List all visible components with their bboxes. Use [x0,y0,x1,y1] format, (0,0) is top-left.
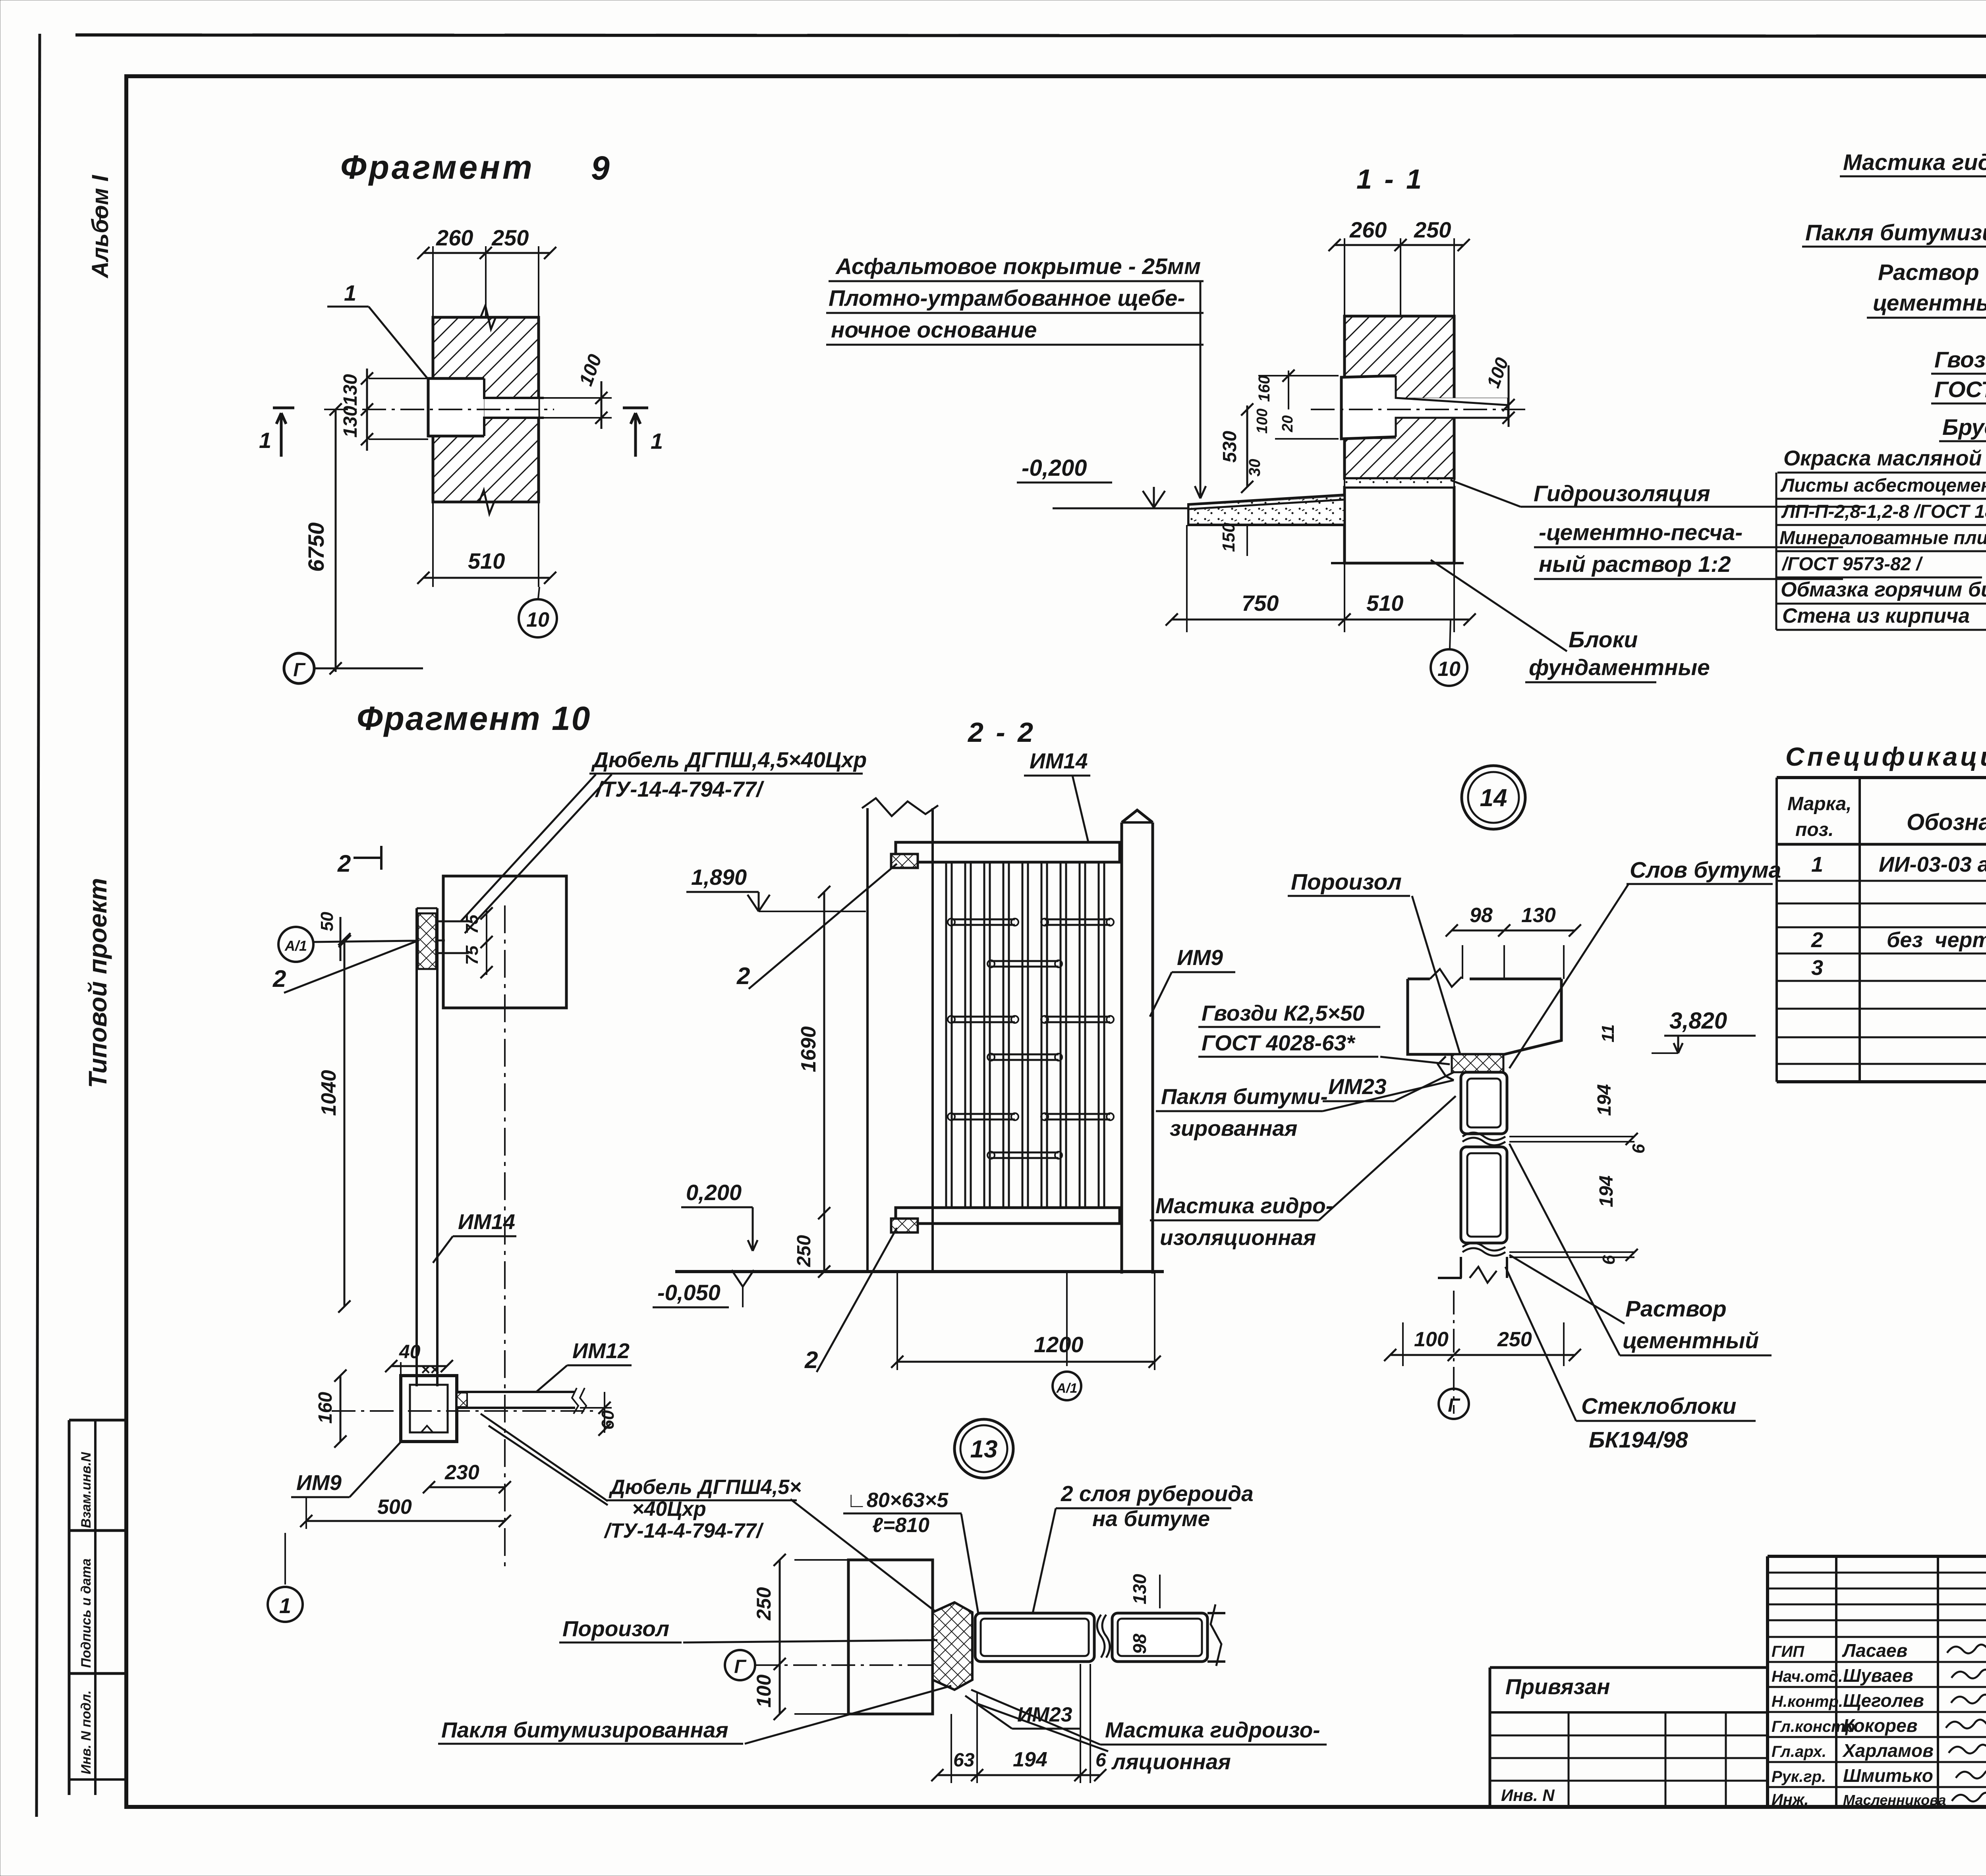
svg-text:изоляционная: изоляционная [1160,1225,1316,1250]
svg-text:Гл.констр: Гл.констр [1772,1718,1855,1735]
svg-text:Ласаев: Ласаев [1842,1640,1907,1661]
svg-text:Г: Г [734,1656,747,1677]
svg-text:Г: Г [1448,1395,1461,1416]
svg-text:13: 13 [970,1436,998,1463]
svg-text:Мастика гидро-: Мастика гидро- [1155,1193,1333,1218]
svg-text:Щеголев: Щеголев [1843,1690,1924,1711]
svg-text:Шуваев: Шуваев [1843,1665,1913,1686]
svg-text:60: 60 [598,1410,618,1430]
svg-text:поз.: поз. [1795,819,1833,840]
svg-text:50: 50 [317,912,337,931]
svg-text:2: 2 [272,965,286,992]
svg-text:250: 250 [1497,1328,1532,1351]
svg-text:Фрагмент 10: Фрагмент 10 [357,700,591,737]
svg-text:фундаментные: фундаментные [1529,655,1710,680]
svg-text:10: 10 [526,608,549,631]
svg-text:Пакля битумизированная: Пакля битумизированная [1805,220,1986,245]
svg-text:500: 500 [377,1496,412,1519]
svg-text:Раствор: Раствор [1878,260,1979,285]
svg-text:1200: 1200 [1034,1332,1084,1357]
svg-text:1040: 1040 [317,1070,340,1116]
svg-text:зированная: зированная [1170,1116,1297,1141]
svg-text:98: 98 [1470,904,1493,927]
svg-text:Пороизол: Пороизол [562,1616,669,1641]
svg-text:ИМ12: ИМ12 [572,1339,630,1363]
svg-text:без чертежа: без чертежа [1887,928,1986,952]
svg-text:Обмазка горячим битумом: Обмазка горячим битумом [1781,578,1986,601]
svg-text:×40Цхр: ×40Цхр [632,1498,706,1521]
svg-text:750: 750 [1242,591,1279,616]
svg-text:160: 160 [1256,375,1273,402]
svg-text:Стеклоблоки: Стеклоблоки [1581,1393,1736,1419]
svg-text:230: 230 [444,1461,479,1484]
svg-text:Пакля битумизированная: Пакля битумизированная [441,1718,728,1742]
svg-text:-0,050: -0,050 [657,1280,721,1305]
svg-text:20: 20 [1279,415,1296,432]
svg-text:250: 250 [1414,217,1451,242]
svg-text:9: 9 [591,149,610,187]
svg-text:194: 194 [1594,1084,1615,1116]
svg-text:130: 130 [340,406,361,438]
svg-text:Плотно-утрамбованное щебе-: Плотно-утрамбованное щебе- [829,286,1185,311]
svg-text:260: 260 [436,225,473,250]
svg-text:6: 6 [1599,1255,1619,1265]
svg-text:1: 1 [651,428,663,454]
svg-text:ИМ23: ИМ23 [1328,1074,1387,1099]
svg-text:11: 11 [1598,1024,1618,1042]
svg-text:194: 194 [1013,1748,1047,1771]
svg-text:/ТУ-14-4-794-77/: /ТУ-14-4-794-77/ [604,1519,764,1542]
svg-text:Инв. N: Инв. N [1501,1786,1555,1805]
svg-text:Инж.: Инж. [1772,1791,1809,1808]
svg-text:Н.контр.: Н.контр. [1772,1693,1843,1710]
svg-text:3: 3 [1811,956,1823,980]
svg-text:194: 194 [1596,1175,1617,1207]
svg-text:250: 250 [794,1235,815,1267]
svg-text:Привязан: Привязан [1505,1674,1610,1699]
svg-text:А/1: А/1 [1056,1381,1078,1396]
svg-text:на битуме: на битуме [1092,1506,1210,1531]
svg-text:510: 510 [1366,591,1403,616]
svg-text:ЛП-П-2,8-1,2-8 /ГОСТ 18124-75*: ЛП-П-2,8-1,2-8 /ГОСТ 18124-75*/ [1781,501,1986,522]
svg-text:Гвозди К2,5×50: Гвозди К2,5×50 [1934,347,1986,372]
svg-text:/ТУ-14-4-794-77/: /ТУ-14-4-794-77/ [595,777,765,801]
svg-text:1690: 1690 [797,1026,820,1072]
svg-text:××: ×× [421,1361,440,1378]
svg-text:1: 1 [1811,853,1823,876]
svg-text:ГИП: ГИП [1772,1643,1804,1660]
svg-text:2: 2 [736,963,750,989]
svg-text:ИМ9: ИМ9 [1177,945,1223,970]
svg-text:Раствор: Раствор [1625,1296,1727,1322]
svg-text:Асфальтовое покрытие - 25мм: Асфальтовое покрытие - 25мм [835,254,1201,279]
svg-text:1 - 1: 1 - 1 [1356,164,1424,195]
svg-text:Подпись и дата: Подпись и дата [79,1558,94,1668]
svg-text:100: 100 [753,1674,775,1708]
svg-text:Кокорев: Кокорев [1843,1715,1918,1736]
svg-text:250: 250 [753,1587,775,1621]
svg-text:Типовой проект: Типовой проект [83,878,112,1088]
svg-text:1: 1 [259,428,271,453]
svg-text:Мастика гидроизо-: Мастика гидроизо- [1105,1718,1320,1742]
svg-text:98: 98 [1129,1633,1150,1654]
svg-text:250: 250 [491,225,529,250]
svg-text:150: 150 [1219,523,1238,552]
svg-text:Альбом I: Альбом I [87,174,113,279]
svg-text:530: 530 [1219,431,1240,463]
svg-text:Харламов: Харламов [1842,1740,1934,1761]
svg-text:Стена из кирпича: Стена из кирпича [1782,604,1970,627]
svg-text:1: 1 [344,280,356,305]
svg-text:цементный: цементный [1623,1328,1759,1353]
svg-text:ный раствор 1:2: ный раствор 1:2 [1539,552,1731,577]
svg-text:ГОСТ 4028-63*: ГОСТ 4028-63* [1202,1031,1356,1055]
svg-text:Обозначение: Обозначение [1907,809,1986,835]
svg-text:Листы асбестоцементные плоские: Листы асбестоцементные плоские [1780,475,1986,496]
svg-text:2: 2 [337,850,351,877]
svg-text:Масленникова: Масленникова [1843,1792,1946,1808]
svg-text:Шмитько: Шмитько [1843,1765,1933,1786]
svg-text:160: 160 [315,1392,336,1424]
svg-text:6: 6 [1629,1144,1648,1154]
svg-text:ИМ23: ИМ23 [1017,1703,1072,1726]
svg-text:Гвозди К2,5×50: Гвозди К2,5×50 [1202,1001,1365,1025]
svg-text:Инв. N подл.: Инв. N подл. [79,1690,94,1774]
svg-text:Пакля битуми-: Пакля битуми- [1161,1084,1328,1109]
svg-text:10: 10 [1437,658,1461,681]
svg-text:Пороизол: Пороизол [1291,869,1402,895]
svg-text:ℓ=810: ℓ=810 [872,1514,929,1537]
svg-text:ИМ14: ИМ14 [458,1210,515,1234]
svg-text:Минераловатные плиты γ=150кг/м: Минераловатные плиты γ=150кг/м³ [1779,527,1986,548]
svg-text:ляционная: ляционная [1111,1749,1231,1774]
svg-text:Г: Г [293,660,306,681]
svg-text:40: 40 [399,1341,421,1363]
svg-text:0,200: 0,200 [686,1180,742,1205]
svg-text:ночное основание: ночное основание [831,317,1037,343]
svg-text:130: 130 [1521,904,1556,927]
svg-text:2 - 2: 2 - 2 [967,717,1036,748]
svg-text:75: 75 [462,946,482,965]
svg-text:14: 14 [1480,784,1507,812]
svg-text:/ГОСТ 9573-82 /: /ГОСТ 9573-82 / [1781,553,1923,574]
svg-text:Нач.отд.: Нач.отд. [1772,1668,1843,1685]
svg-text:цементный: цементный [1873,290,1986,316]
svg-text:2: 2 [804,1347,818,1373]
svg-text:100: 100 [1414,1328,1449,1351]
svg-text:-0,200: -0,200 [1022,455,1087,481]
svg-text:Дюбель ДГПШ4,5×: Дюбель ДГПШ4,5× [609,1476,802,1499]
svg-text:2 слоя рубероида: 2 слоя рубероида [1061,1481,1254,1506]
svg-text:63: 63 [953,1750,975,1771]
svg-text:Взам.инв.N: Взам.инв.N [79,1451,94,1528]
svg-text:∟80×63×5: ∟80×63×5 [846,1489,949,1512]
svg-text:130: 130 [340,374,361,406]
svg-text:75: 75 [462,915,482,934]
svg-text:Рук.гр.: Рук.гр. [1772,1768,1826,1785]
svg-text:Дюбель ДГПШ,4,5×40Цхр: Дюбель ДГПШ,4,5×40Цхр [591,747,867,772]
svg-text:30: 30 [1246,459,1263,477]
svg-text:-цементно-песча-: -цементно-песча- [1539,520,1743,545]
svg-text:Блоки: Блоки [1569,627,1638,652]
svg-text:1,890: 1,890 [691,865,747,890]
svg-text:Гидроизоляция: Гидроизоляция [1534,481,1710,506]
svg-text:ИМ14: ИМ14 [1030,749,1088,773]
svg-text:1: 1 [279,1594,291,1618]
svg-text:510: 510 [468,548,505,573]
svg-text:Брус 60×60: Брус 60×60 [1942,415,1986,440]
svg-text:А/1: А/1 [284,938,307,954]
svg-text:ИИ-03-03 ал. 71-64: ИИ-03-03 ал. 71-64 [1879,853,1986,876]
svg-text:130: 130 [1129,1574,1150,1604]
svg-text:2: 2 [1811,928,1823,952]
svg-text:БК194/98: БК194/98 [1589,1427,1688,1453]
svg-text:Спецификация элементов к фр: Спецификация элементов к фрагментам 9,10 [1785,742,1986,771]
svg-text:Гл.арх.: Гл.арх. [1772,1743,1826,1760]
svg-text:260: 260 [1349,217,1387,242]
svg-text:3,820: 3,820 [1669,1008,1727,1034]
svg-text:Фрагмент: Фрагмент [340,149,535,186]
svg-text:ИМ9: ИМ9 [296,1471,342,1495]
svg-text:Слов бутума: Слов бутума [1630,857,1781,883]
svg-text:6: 6 [1095,1750,1106,1771]
svg-text:Марка,: Марка, [1787,793,1852,814]
svg-text:6750: 6750 [303,522,328,572]
svg-text:Окраска масляной краской: Окраска масляной краской [1783,446,1986,470]
svg-text:ГОСТ 4028-63*: ГОСТ 4028-63* [1934,377,1986,402]
svg-text:Мастика гидроизоляционная: Мастика гидроизоляционная [1843,150,1986,175]
svg-text:100: 100 [1254,409,1271,434]
